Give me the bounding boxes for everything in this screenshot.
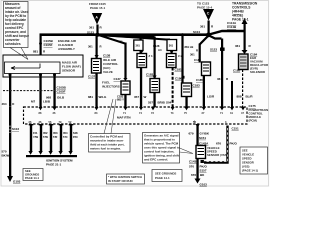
ground G103 (VSS): [195, 179, 201, 184]
EVR solenoid: [239, 54, 249, 70]
wire: fan branch S123 to connector C180 drop: [99, 35, 171, 40]
svg-text:676: 676: [191, 173, 196, 177]
S104 branch diagonal to splice square / wire x223: [209, 36, 222, 39]
svg-text:R: R: [196, 49, 198, 53]
svg-text:O/LB: O/LB: [57, 96, 65, 100]
note box: injectors (bottom middle): [89, 134, 131, 153]
svg-text:T/W: T/W: [43, 135, 48, 139]
svg-text:361: 361: [88, 45, 93, 49]
svg-text:ASSEMBLY: ASSEMBLY: [58, 47, 76, 51]
svg-text:SENSOR: SENSOR: [62, 69, 76, 73]
svg-text:PAGE 14-1: PAGE 14-1: [155, 176, 170, 180]
see grounds box (left): [23, 169, 43, 181]
svg-text:361: 361: [235, 44, 240, 48]
svg-text:C137: C137: [88, 75, 96, 79]
svg-text:S157: S157: [200, 169, 207, 173]
svg-text:C185: C185: [233, 69, 241, 73]
injector P4 (C137): [121, 78, 130, 95]
svg-text:M7: M7: [31, 99, 35, 103]
MAF: engine air cleaner assembly box: [3, 55, 83, 77]
svg-text:C183: C183: [193, 84, 201, 88]
svg-text:G103: G103: [200, 183, 208, 187]
VSS wire from PCM: [196, 126, 198, 146]
VSS ground wire: [196, 159, 198, 179]
svg-text:352: 352: [43, 131, 48, 135]
S104 branch diagonal down-left to P7: [200, 36, 208, 45]
inline connector above P2: [134, 40, 143, 51]
wire from triangle A down to splice S123: [96, 25, 98, 36]
svg-text:361: 361: [217, 77, 222, 81]
dashed wire below P3: [172, 68, 174, 108]
svg-text:C185: C185: [196, 78, 203, 82]
svg-text:PAGE 15-4: PAGE 15-4: [197, 6, 212, 10]
svg-text:Y/W: Y/W: [33, 135, 39, 139]
injector P3: [167, 51, 177, 68]
svg-text:LB/B: LB/B: [43, 99, 51, 103]
svg-text:361: 361: [89, 26, 94, 30]
svg-text:570: 570: [189, 165, 194, 169]
C105 connector dashed line: [3, 90, 55, 92]
svg-text:S151: S151: [199, 136, 206, 140]
svg-text:361: 361: [190, 53, 195, 57]
branch drop to P5 injector: [154, 37, 156, 79]
svg-text:S103: S103: [12, 127, 19, 131]
PCM pins: triangles and numbers along top: [39, 107, 246, 110]
arrow up to transmission controls: [242, 19, 248, 25]
VSS sensor: [196, 146, 206, 159]
svg-text:R: R: [100, 45, 102, 49]
VSS pin at PCM bottom: [195, 124, 199, 128]
svg-text:676: 676: [216, 142, 221, 146]
svg-text:S104: S104: [193, 30, 200, 34]
svg-text:881: 881: [88, 95, 93, 99]
svg-text:BR/B: BR/B: [158, 101, 166, 105]
svg-text:BL/R: BL/R: [246, 95, 254, 99]
wire: P6 to PCM: [185, 97, 187, 108]
svg-text:881 LB: 881 LB: [185, 45, 194, 49]
ground arrow G103: [7, 176, 13, 182]
svg-text:361: 361: [200, 25, 205, 29]
wire: fan branch S123 to injector C137 drop: [99, 35, 126, 44]
svg-text:BK/W: BK/W: [2, 154, 10, 158]
connector triangle C (to C123): [197, 2, 214, 21]
IAC valve connector: [92, 59, 102, 74]
see VSS note box: [240, 147, 268, 174]
svg-text:G103: G103: [13, 180, 21, 184]
svg-text:LG/R: LG/R: [207, 95, 215, 99]
wire: fan branch S123 to injector C182 drop: [99, 35, 155, 37]
svg-text:SENSOR (VSS): SENSOR (VSS): [207, 153, 228, 157]
svg-text:557: 557: [148, 101, 153, 105]
inline connector above P3: [167, 40, 177, 51]
PCM bottom pins: [29, 120, 228, 124]
svg-text:888: 888: [237, 95, 242, 99]
svg-text:VALVE: VALVE: [103, 70, 113, 74]
svg-text:C105F: C105F: [57, 90, 66, 94]
svg-text:354: 354: [63, 131, 68, 135]
svg-text:# 2: # 2: [178, 54, 183, 58]
svg-text:679: 679: [189, 132, 194, 136]
MAF sensor element arrow: [11, 64, 40, 70]
ignition wire labels: [33, 131, 78, 139]
ignition wires below PCM: [29, 124, 74, 151]
injector P6 (C183): [182, 83, 192, 97]
svg-text:MAF RTN: MAF RTN: [117, 116, 131, 120]
svg-text:151: 151: [33, 131, 38, 135]
connector P7: [202, 62, 211, 76]
branch drop to P4 injector: [124, 43, 126, 79]
svg-text:# 1: # 1: [149, 54, 154, 58]
main bus wire left: S123 to corner above MAF: [40, 33, 99, 36]
svg-text:361: 361: [118, 40, 123, 44]
svg-text:357: 357: [134, 95, 139, 99]
svg-text:A: A: [95, 15, 98, 19]
MAF sensor inner box: [5, 62, 61, 74]
branch drop to P2 injector: [140, 37, 142, 41]
injector P5: [150, 76, 160, 93]
arrow into EVR: [242, 50, 248, 54]
footnote box: [107, 174, 145, 184]
svg-text:W/LG: W/LG: [99, 95, 107, 99]
svg-text:968: 968: [46, 96, 51, 100]
svg-text:PK/O: PK/O: [230, 142, 238, 146]
ignition system bus bar: [26, 155, 77, 157]
S104 branch up to triangle C: [208, 21, 210, 36]
svg-text:S123: S123: [210, 48, 217, 52]
svg-text:IN START OR RUN: IN START OR RUN: [108, 179, 133, 183]
wire corner down into MAF box: [40, 34, 42, 55]
svg-text:T/O: T/O: [63, 135, 67, 139]
note box: MAF description (top left): [4, 2, 30, 48]
svg-text:C182: C182: [146, 73, 154, 77]
svg-text:C186: C186: [175, 77, 183, 81]
see grounds box (middle): [152, 170, 182, 182]
svg-text:C184: C184: [194, 58, 201, 62]
svg-text:PAGE 15-1: PAGE 15-1: [90, 6, 105, 10]
svg-text:(PAGE 14-1): (PAGE 14-1): [242, 169, 258, 173]
svg-text:881: 881: [33, 50, 38, 54]
PCM band (dashed): [24, 107, 248, 124]
svg-text:C138: C138: [103, 54, 111, 58]
svg-text:C105F: C105F: [44, 43, 53, 47]
connector triangle A (from C105): [89, 2, 106, 25]
callout pointer from note box to MAF box: [10, 48, 28, 60]
svg-text:C138: C138: [153, 44, 160, 48]
note box: VSS description: [143, 133, 180, 164]
svg-text:C: C: [207, 12, 210, 16]
svg-text:S04: S04: [166, 101, 172, 105]
svg-text:T/R: T/R: [53, 135, 57, 139]
svg-text:C114B: C114B: [227, 25, 237, 29]
svg-text:353: 353: [53, 131, 58, 135]
wire x232 into PCM: [231, 81, 233, 107]
svg-text:and EPC control.: and EPC control.: [144, 158, 168, 162]
svg-text:648: 648: [73, 131, 78, 135]
svg-text:C137: C137: [114, 77, 122, 81]
svg-text:schedules: schedules: [5, 42, 21, 46]
MAF wires down: [9, 73, 12, 76]
splice square S104B: [220, 48, 225, 51]
arrowheads onto ignition bus: [28, 151, 72, 155]
EVR dashed wire to PCM: [242, 70, 244, 108]
svg-text:882 Y: 882 Y: [117, 98, 124, 102]
svg-text:361: 361: [169, 44, 174, 48]
svg-text:W: W: [144, 95, 147, 99]
svg-text:INJECTORS: INJECTORS: [102, 84, 120, 88]
branch drop to P3 injector: [171, 51, 173, 55]
label: transmission controls destination: [232, 2, 258, 22]
injector P2: [137, 51, 147, 68]
svg-text:PAGE 21-1: PAGE 21-1: [46, 163, 61, 167]
svg-text:meters fuel to engine.: meters fuel to engine.: [90, 147, 121, 151]
svg-text:P/O: P/O: [73, 135, 78, 139]
svg-text:(PCM): (PCM): [249, 119, 257, 123]
wire: fan branch S123 to connector C136 drop: [99, 35, 140, 38]
svg-text:PAGE 14-1: PAGE 14-1: [25, 176, 40, 180]
svg-text:A4: A4: [158, 48, 162, 52]
IAC wires: [96, 36, 98, 59]
svg-text:464: 464: [2, 102, 7, 106]
svg-text:361: 361: [136, 44, 141, 48]
svg-text:C181: C181: [175, 68, 183, 72]
svg-text:SOLENOID: SOLENOID: [250, 70, 265, 74]
svg-text:C151: C151: [232, 127, 240, 131]
bus T-branch down to P6: [181, 33, 184, 36]
page border: [1, 1, 269, 187]
main bus wire right: S123 to S104: [98, 33, 208, 36]
S104 branch right along y31 to EVR / transmission: [209, 31, 244, 35]
wire: P4 to PCM: [124, 95, 126, 108]
